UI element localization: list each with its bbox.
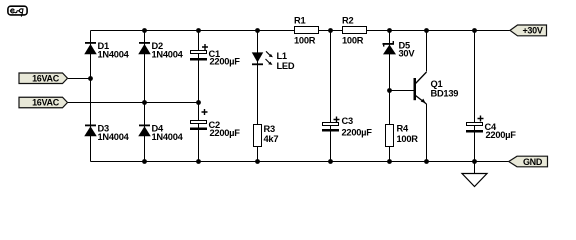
- svg-text:R4: R4: [397, 124, 409, 134]
- wire D2/D4 column: [144, 31, 146, 162]
- svg-text:100R: 100R: [397, 134, 419, 144]
- wire L1/R3 column: [257, 31, 259, 162]
- svg-text:2200µF: 2200µF: [210, 128, 241, 138]
- wire D1/D3 column: [90, 31, 92, 162]
- svg-text:BD139: BD139: [431, 89, 459, 99]
- wire 16VAC input 1: [68, 78, 91, 80]
- wire C3 column: [330, 31, 332, 162]
- svg-text:1N4004: 1N4004: [98, 132, 130, 142]
- terminal 16VAC upper: [19, 73, 68, 84]
- svg-text:LED: LED: [277, 61, 295, 71]
- svg-text:2200µF: 2200µF: [486, 130, 517, 140]
- diode D2 1N4004: [138, 41, 183, 60]
- ESP logo: [8, 6, 27, 16]
- svg-text:16VAC: 16VAC: [32, 98, 60, 108]
- capacitor C1 2200uF: [190, 44, 240, 67]
- terminal +30V: [510, 25, 547, 36]
- svg-text:30V: 30V: [399, 48, 416, 58]
- junction dot node 16VAC1/D1/D3: [88, 76, 93, 81]
- LED L1: [252, 51, 295, 71]
- capacitor C2 2200uF: [190, 109, 240, 138]
- svg-text:R1: R1: [294, 16, 305, 26]
- junction dots top rail: [142, 28, 477, 33]
- wire bottom rail (GND net): [91, 161, 510, 163]
- junction dots bottom rail: [142, 159, 477, 164]
- svg-text:4k7: 4k7: [264, 134, 279, 144]
- svg-text:GND: GND: [523, 157, 543, 167]
- zener diode D5 30V: [383, 41, 416, 59]
- junction dot Q1 base node: [387, 88, 392, 93]
- svg-text:Q1: Q1: [431, 79, 443, 89]
- wire 16VAC input 2 / center tap: [68, 102, 199, 104]
- wire top rail: [91, 30, 511, 32]
- wire Q1 emitter: [426, 104, 428, 162]
- wire Q1 base: [390, 90, 414, 92]
- wire D5/R4 column: [389, 31, 391, 162]
- ground symbol: [462, 174, 487, 187]
- resistor R1 100R: [294, 16, 319, 46]
- transistor Q1 BD139: [414, 72, 459, 104]
- resistor R4 100R: [386, 124, 419, 147]
- svg-text:100R: 100R: [294, 36, 316, 46]
- svg-text:1N4004: 1N4004: [152, 132, 184, 142]
- wire Q1 collector: [426, 31, 428, 72]
- svg-text:L1: L1: [277, 51, 287, 61]
- terminal 16VAC lower: [19, 97, 68, 108]
- resistor R2 100R: [342, 16, 367, 46]
- capacitor C4 2200uF: [466, 116, 516, 141]
- diode D1 1N4004: [84, 41, 129, 60]
- svg-text:C3: C3: [342, 116, 353, 126]
- junction dots center-tap wire: [142, 100, 201, 105]
- svg-text:1N4004: 1N4004: [98, 50, 130, 60]
- wire C1/C2 column: [198, 31, 200, 162]
- resistor R3 4k7: [254, 124, 279, 147]
- svg-text:+30V: +30V: [522, 26, 542, 36]
- svg-text:1N4004: 1N4004: [152, 50, 184, 60]
- svg-text:100R: 100R: [342, 36, 364, 46]
- capacitor C3 2200uF: [322, 116, 372, 138]
- svg-text:2200µF: 2200µF: [210, 57, 241, 67]
- svg-text:16VAC: 16VAC: [32, 73, 60, 83]
- svg-text:R3: R3: [264, 124, 275, 134]
- terminal GND: [509, 156, 548, 167]
- wire C4 column: [474, 31, 476, 174]
- svg-text:R2: R2: [342, 16, 353, 26]
- diode D4 1N4004: [138, 124, 183, 143]
- svg-text:2200µF: 2200µF: [342, 128, 373, 138]
- diode D3 1N4004: [84, 124, 129, 143]
